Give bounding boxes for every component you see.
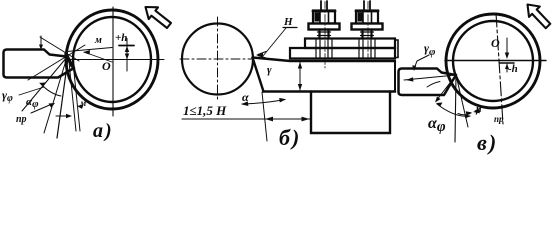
roll circle (fig b) <box>182 24 253 95</box>
long diagonal thin line (fig a) <box>28 45 85 80</box>
H label leader (fig b) <box>263 28 286 56</box>
fan line 1 (fig v) <box>436 75 456 101</box>
tick under +h (fig a) <box>119 45 134 47</box>
vertical centerline (fig b) <box>217 17 219 101</box>
svg-text:б): б) <box>279 125 301 150</box>
-h dimension (fig v) <box>506 38 508 57</box>
svg-text:μ: μ <box>475 104 482 115</box>
pr leader arrow (fig a) <box>31 104 52 113</box>
svg-text:м: м <box>94 35 102 46</box>
knife right edge (fig b) <box>394 61 396 92</box>
knife front face (fig b) <box>253 58 264 92</box>
bottom m dimension lines (fig a) <box>69 62 76 131</box>
svg-text:м: м <box>79 98 86 108</box>
bolt 2 (fig b) <box>352 1 383 58</box>
svg-text:O: O <box>102 59 111 73</box>
knife bottom edge (fig b) <box>264 90 396 93</box>
svg-text:γ: γ <box>267 64 272 76</box>
alpha angle arc (fig b) <box>242 100 285 105</box>
svg-text:Н: Н <box>283 16 293 28</box>
mu leader arrow (fig v) <box>475 107 482 111</box>
svg-text:в): в) <box>477 130 498 155</box>
upper diagonal thin line (fig a) <box>40 37 79 61</box>
fan line 2 from contact (fig a) <box>44 57 67 133</box>
gamma-phi leader (fig v) <box>414 55 429 69</box>
horizontal centerline (fig b) <box>180 58 252 60</box>
svg-text:+h: +h <box>115 32 127 44</box>
rotation arrow (fig v) <box>528 5 551 29</box>
alpha-phi arc (fig v) <box>437 104 470 116</box>
inner thin line (fig v) <box>404 75 456 80</box>
m dimension arrowhead at contact (fig a) <box>83 50 90 55</box>
front face extension (fig b) <box>262 92 267 141</box>
svg-text:O: O <box>491 36 500 50</box>
vertical tick with arrow (fig a) <box>40 36 42 49</box>
svg-text:α: α <box>242 90 249 104</box>
roll outer circle (fig v) <box>446 14 540 108</box>
svg-text:а): а) <box>93 120 114 142</box>
svg-text:пр: пр <box>16 114 27 125</box>
svg-text:αφ: αφ <box>26 96 39 110</box>
fan line 3 (fig v) <box>456 75 468 127</box>
front face extension (fig a) <box>57 58 68 138</box>
svg-text:пр: пр <box>494 114 504 124</box>
vertical centerline (fig v) <box>496 13 503 124</box>
knife top edge (fig b) <box>253 58 396 62</box>
gamma angle marks (fig b) <box>258 52 266 59</box>
roll inner circle (fig a) <box>73 17 151 102</box>
bolt 1 (fig b) <box>309 1 340 58</box>
rotation arrow (fig a) <box>146 7 172 28</box>
horizontal centerline (fig a) <box>66 59 164 61</box>
radius line to center O (fig a) <box>84 52 112 62</box>
svg-text:-h: -h <box>508 63 518 75</box>
contact level line (fig a) <box>67 48 112 52</box>
horizontal centerline (fig v) <box>445 60 546 62</box>
mu arc (fig v) <box>458 113 471 115</box>
bolt 1 axis (fig b) <box>324 2 326 69</box>
tool bar (fig v) <box>399 69 457 96</box>
+h dimension line (fig a) <box>126 39 128 72</box>
overhang dimension line (fig b) <box>182 118 310 120</box>
fan line 1 from contact (fig a) <box>22 57 67 111</box>
angle arc alpha-phi (fig a) <box>40 83 61 96</box>
inner arc (fig v) <box>427 82 440 88</box>
tool bar (fig a) <box>4 50 75 78</box>
support block (fig b) <box>311 92 390 134</box>
gamma-phi leader (fig a) <box>19 87 44 95</box>
roll inner circle (fig v) <box>453 21 533 101</box>
H exposure dimension (fig b) <box>299 62 301 90</box>
clamp plate 2 (fig b) <box>290 48 395 59</box>
right cap (fig b) <box>395 40 398 58</box>
roll outer circle (fig a) <box>66 10 158 109</box>
svg-text:1≤1,5 Н: 1≤1,5 Н <box>183 103 227 118</box>
vertical centerline (fig a) <box>112 7 114 116</box>
bolt 2 axis (fig b) <box>367 2 369 59</box>
clamp plate 1 (fig b) <box>305 39 395 49</box>
fan line 2 front ext (fig v) <box>455 75 456 142</box>
